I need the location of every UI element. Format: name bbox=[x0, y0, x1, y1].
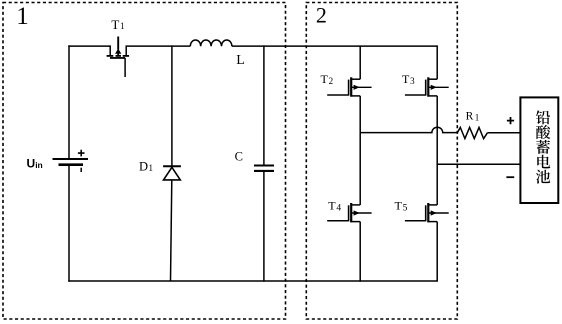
wire: Uin positive lead up to top rail bbox=[68, 45, 70, 158]
transistor T2 bbox=[327, 77, 371, 96]
wire: node B to battery negative terminal bbox=[437, 163, 520, 165]
wire: node A down to T4 drain bbox=[359, 133, 361, 205]
polarity - at battery box bbox=[506, 176, 514, 178]
svg-text:3: 3 bbox=[410, 76, 415, 86]
svg-text:1: 1 bbox=[149, 163, 154, 173]
wire: Uin negative lead down to bottom rail bbox=[68, 166, 70, 282]
battery box text char dian (电) bbox=[537, 155, 550, 169]
battery box text char qian (铅) bbox=[536, 110, 550, 124]
wire: top rail down to T2 drain bbox=[359, 45, 361, 79]
svg-text:L: L bbox=[236, 53, 245, 68]
transistor T3 bbox=[405, 77, 449, 96]
block 1 boundary (dashed box) bbox=[3, 3, 286, 320]
svg-text:T: T bbox=[402, 72, 410, 86]
svg-text:T: T bbox=[328, 198, 336, 212]
polarity - tick of Uin bbox=[80, 168, 82, 172]
transistor T4 bbox=[327, 203, 371, 222]
wire: top rail from inductor across to H-bridge right leg bbox=[232, 45, 437, 47]
wire: bottom rail bbox=[68, 280, 437, 282]
svg-text:T: T bbox=[111, 17, 119, 32]
wire: T2 source down to node A bbox=[359, 96, 361, 133]
resistor R1 bbox=[457, 127, 487, 138]
svg-text:2: 2 bbox=[316, 2, 327, 27]
wire: T4 source down to bottom rail bbox=[359, 222, 361, 282]
block 2 boundary (dashed box) bbox=[306, 3, 457, 320]
battery box text char chi (池) bbox=[536, 170, 550, 184]
wire: top rail from Uin to T1 drain bbox=[68, 45, 110, 47]
svg-text:4: 4 bbox=[336, 203, 341, 213]
svg-text:1: 1 bbox=[16, 3, 29, 30]
svg-text:T: T bbox=[395, 198, 403, 212]
battery box text char xu (蓄) bbox=[536, 140, 550, 154]
svg-text:C: C bbox=[235, 150, 243, 164]
wire: top rail junction down to diode D1 cathode bbox=[171, 45, 173, 166]
wire: R1 to battery positive terminal bbox=[487, 132, 520, 134]
wire: top rail corner down to T3 drain bbox=[436, 45, 438, 79]
svg-text:2: 2 bbox=[329, 76, 334, 86]
polarity + at battery box bbox=[507, 117, 514, 124]
wire: top rail junction down to capacitor C bbox=[263, 45, 265, 165]
inductor L bbox=[190, 40, 232, 46]
wire: T5 source down to bottom rail bbox=[436, 222, 438, 282]
svg-text:1: 1 bbox=[120, 21, 125, 31]
transistor T5 bbox=[405, 203, 449, 222]
svg-text:U: U bbox=[27, 157, 36, 171]
svg-text:in: in bbox=[35, 160, 43, 170]
svg-text:D: D bbox=[139, 159, 148, 173]
wire: D1 anode down to bottom rail bbox=[171, 180, 172, 281]
polarity + of Uin bbox=[78, 150, 85, 157]
svg-text:5: 5 bbox=[403, 203, 408, 213]
svg-text:T: T bbox=[321, 72, 329, 86]
battery box (lead-acid battery) bbox=[520, 97, 558, 203]
wire: T3 source down through node B to T5 drain bbox=[436, 96, 438, 205]
voltage source Uin bbox=[53, 159, 89, 165]
capacitor C bbox=[254, 166, 274, 171]
svg-text:1: 1 bbox=[475, 112, 480, 122]
svg-text:R: R bbox=[466, 111, 474, 123]
diode D1 bbox=[163, 166, 181, 180]
battery box text char suan (酸) bbox=[536, 125, 550, 139]
wire: node A to R1 with hop over right leg bbox=[360, 127, 457, 132]
wire: capacitor C down to bottom rail bbox=[263, 171, 265, 282]
wire: T1 source to inductor bbox=[126, 45, 190, 47]
transistor T1 bbox=[107, 37, 130, 78]
